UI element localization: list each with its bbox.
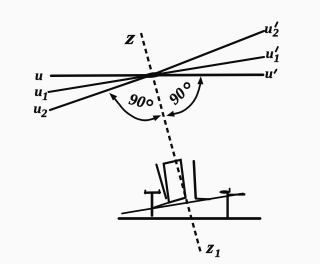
left clamp bar tick R — [158, 190, 160, 193]
svg-text:u: u — [265, 22, 273, 37]
left clamp bar — [145, 191, 160, 194]
line u1' — [153, 57, 264, 75]
svg-text:1: 1 — [215, 246, 221, 260]
svg-text:z: z — [123, 26, 137, 48]
ground baseline — [119, 217, 260, 220]
workpiece bottom-edge extension — [154, 202, 170, 207]
right clamp washer — [219, 190, 229, 194]
prime of u2' — [275, 22, 277, 26]
clamp strap — [156, 165, 166, 199]
workpiece — [164, 160, 186, 203]
right clamp bolt tip — [229, 189, 231, 192]
svg-text:u1: u1 — [35, 85, 49, 103]
left clamp bar tick L — [144, 190, 146, 193]
svg-text:1: 1 — [274, 51, 280, 65]
svg-text:u: u — [35, 69, 43, 84]
tilted plate — [122, 194, 243, 214]
svg-text:90: 90 — [127, 91, 147, 112]
arrowhead left-arc lower — [153, 115, 162, 121]
line u2 — [50, 75, 153, 111]
degree mark of right 90 — [184, 83, 189, 88]
svg-text:u: u — [266, 47, 274, 62]
svg-text:z: z — [205, 237, 216, 257]
line u2' — [153, 31, 264, 75]
angle plate foot — [196, 198, 210, 201]
arrowhead right-arc lower — [166, 111, 175, 117]
line u' — [153, 73, 263, 76]
prime of u1' — [276, 47, 278, 51]
line u — [51, 74, 153, 77]
right clamp stem — [226, 192, 228, 217]
left clamp stem — [151, 193, 154, 216]
degree mark of left 90 — [147, 100, 152, 105]
svg-text:u2: u2 — [34, 102, 48, 120]
angle plate vertical — [194, 161, 196, 198]
right clamp strap end — [240, 193, 244, 196]
hub ink blob at intersection — [143, 71, 164, 79]
svg-text:u: u — [265, 67, 273, 82]
right clamp strap — [228, 194, 240, 196]
arrowhead right-arc upper — [197, 76, 203, 84]
line u1 — [49, 75, 154, 92]
axis z (dashed) — [141, 33, 201, 254]
arc 90deg left — [115, 99, 155, 121]
arrowhead left-arc upper — [109, 93, 117, 101]
prime of u' — [275, 70, 277, 73]
arc 90deg right — [173, 85, 201, 115]
